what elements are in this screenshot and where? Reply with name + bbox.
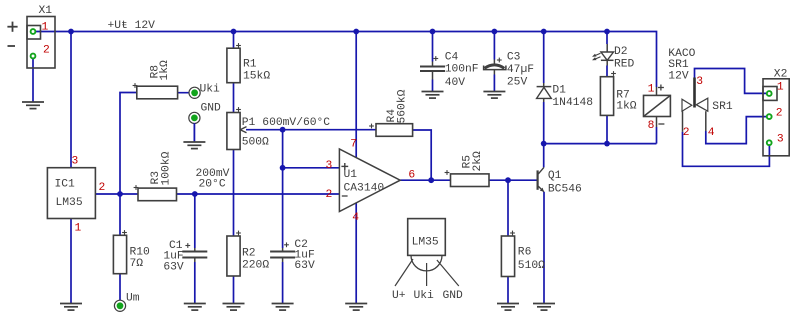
- svg-text:3: 3: [696, 76, 703, 88]
- svg-text:P1: P1: [242, 117, 256, 129]
- svg-text:220Ω: 220Ω: [242, 260, 269, 272]
- svg-text:CA3140: CA3140: [344, 183, 385, 195]
- svg-text:X1: X1: [39, 5, 53, 17]
- svg-text:C3: C3: [507, 51, 521, 63]
- svg-text:63V: 63V: [163, 262, 184, 274]
- svg-text:1N4148: 1N4148: [552, 97, 593, 109]
- svg-text:Uki: Uki: [200, 83, 221, 95]
- svg-text:1: 1: [42, 22, 49, 34]
- svg-text:SR1: SR1: [668, 59, 689, 71]
- svg-text:40V: 40V: [445, 77, 466, 89]
- svg-text:D2: D2: [614, 46, 628, 58]
- svg-text:1: 1: [777, 81, 784, 93]
- svg-text:X2: X2: [774, 68, 788, 80]
- svg-text:3: 3: [72, 156, 79, 168]
- svg-text:R10: R10: [130, 247, 151, 259]
- svg-text:500Ω: 500Ω: [242, 137, 269, 149]
- svg-text:U1: U1: [344, 169, 358, 181]
- svg-text:1kΩ: 1kΩ: [159, 60, 171, 81]
- svg-text:BC546: BC546: [548, 184, 582, 196]
- svg-text:600mV/60°C: 600mV/60°C: [262, 117, 330, 129]
- svg-text:GND: GND: [201, 102, 222, 114]
- svg-text:2: 2: [43, 45, 50, 57]
- svg-text:20°C: 20°C: [199, 178, 226, 190]
- svg-text:25V: 25V: [507, 76, 528, 88]
- svg-text:GND: GND: [443, 290, 464, 302]
- svg-text:3: 3: [326, 160, 333, 172]
- svg-text:1kΩ: 1kΩ: [616, 101, 637, 113]
- svg-text:7: 7: [350, 138, 357, 150]
- svg-text:12V: 12V: [668, 71, 689, 83]
- svg-text:1: 1: [75, 223, 82, 235]
- svg-text:7Ω: 7Ω: [130, 258, 144, 270]
- svg-text:R7: R7: [616, 89, 630, 101]
- svg-text:R2: R2: [242, 247, 256, 259]
- svg-text:1: 1: [648, 83, 655, 95]
- svg-text:47µF: 47µF: [507, 64, 534, 76]
- svg-text:2: 2: [683, 127, 690, 139]
- svg-text:R1: R1: [243, 58, 257, 70]
- svg-text:SR1: SR1: [712, 101, 733, 113]
- svg-text:2: 2: [99, 182, 106, 194]
- svg-text:2: 2: [776, 108, 783, 120]
- svg-text:LM35: LM35: [412, 237, 439, 249]
- svg-text:2kΩ: 2kΩ: [472, 151, 484, 172]
- svg-text:100kΩ: 100kΩ: [161, 151, 173, 185]
- svg-text:2: 2: [326, 189, 333, 201]
- svg-text:Q1: Q1: [548, 170, 562, 182]
- svg-text:510Ω: 510Ω: [518, 260, 545, 272]
- svg-text:LM35: LM35: [56, 197, 83, 209]
- svg-text:RED: RED: [614, 58, 635, 70]
- svg-text:560kΩ: 560kΩ: [397, 89, 409, 123]
- svg-text:IC1: IC1: [55, 178, 76, 190]
- svg-text:3: 3: [777, 133, 784, 145]
- svg-text:Um: Um: [126, 293, 140, 305]
- svg-text:4: 4: [708, 127, 715, 139]
- svg-text:KACO: KACO: [668, 48, 695, 60]
- svg-text:1uF: 1uF: [163, 250, 183, 262]
- svg-text:Uki: Uki: [414, 290, 435, 302]
- svg-text:63V: 63V: [294, 260, 315, 272]
- svg-text:4: 4: [352, 212, 359, 224]
- svg-text:R6: R6: [518, 247, 532, 259]
- svg-text:U+: U+: [392, 290, 406, 302]
- svg-text:15kΩ: 15kΩ: [243, 70, 270, 82]
- svg-text:8: 8: [648, 120, 655, 132]
- svg-text:D1: D1: [552, 84, 566, 96]
- svg-text:+Uŧ 12V: +Uŧ 12V: [108, 20, 156, 32]
- svg-text:100nF: 100nF: [445, 64, 479, 76]
- svg-text:6: 6: [408, 169, 415, 181]
- svg-text:C4: C4: [445, 51, 459, 63]
